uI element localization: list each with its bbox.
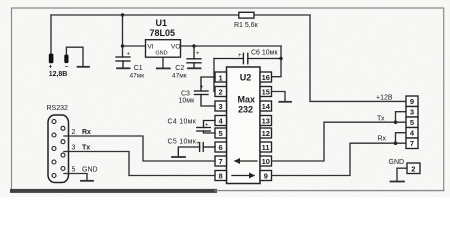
border bottom thin right segment <box>215 190 444 192</box>
svg-text:2: 2 <box>72 129 76 136</box>
wire VO riser to pin16 <box>272 46 281 77</box>
svg-text:232: 232 <box>238 105 253 115</box>
node VO/C2 junction <box>192 44 195 47</box>
svg-text:C1: C1 <box>134 65 143 72</box>
svg-text:9: 9 <box>410 97 414 106</box>
svg-text:12: 12 <box>262 129 270 138</box>
wire GND box to ground <box>397 168 407 181</box>
wire top rail left (to R1) <box>51 14 239 16</box>
DB9 holes left column <box>52 120 56 178</box>
svg-text:8: 8 <box>219 172 223 181</box>
svg-text:GND: GND <box>82 167 98 174</box>
connector RS232 DB9 body <box>48 115 69 183</box>
wire pin9 to Rx out <box>272 143 406 175</box>
svg-text:GND: GND <box>155 51 167 57</box>
battery - terminal <box>64 55 68 64</box>
DB9 holes right column <box>61 126 65 170</box>
capacitor C1 <box>116 57 130 68</box>
svg-text:Rх: Rх <box>378 136 387 143</box>
svg-text:14: 14 <box>262 102 271 111</box>
arrow pin10 to pin7 <box>234 158 257 164</box>
node Rx tee <box>394 141 398 145</box>
wire U1 GND pin <box>162 57 164 68</box>
svg-text:Max: Max <box>238 95 256 105</box>
svg-text:78L05: 78L05 <box>150 28 176 38</box>
node C6/VO junction <box>279 57 282 60</box>
pin 16 <box>260 72 272 82</box>
svg-text:2: 2 <box>219 88 223 97</box>
svg-text:Tx: Tx <box>82 145 90 152</box>
svg-text:9: 9 <box>264 172 268 181</box>
capacitor C3 (pins 1-3) <box>195 77 216 106</box>
svg-text:1: 1 <box>219 73 223 82</box>
pin 1 <box>215 72 227 82</box>
connector pin 2 GND box <box>407 163 420 174</box>
pin 5 <box>215 128 227 138</box>
ground for battery - <box>78 66 90 68</box>
svg-text:–: – <box>65 63 69 70</box>
svg-text:+: + <box>200 85 204 91</box>
svg-text:7: 7 <box>410 139 414 148</box>
svg-text:6: 6 <box>219 143 223 152</box>
svg-text:11: 11 <box>262 143 270 152</box>
svg-text:5: 5 <box>219 129 223 138</box>
svg-text:VO: VO <box>171 44 180 51</box>
pin 3 <box>215 101 227 111</box>
svg-text:10: 10 <box>262 157 270 166</box>
pin 2 <box>215 87 227 97</box>
svg-text:C3: C3 <box>181 91 190 98</box>
pin 4 <box>215 116 227 126</box>
svg-text:C4 10мк: C4 10мк <box>168 119 197 126</box>
ground below U1 <box>157 67 170 69</box>
svg-text:5: 5 <box>72 167 76 174</box>
svg-text:10мк: 10мк <box>179 98 196 105</box>
svg-text:C6 10мк: C6 10мк <box>251 50 278 57</box>
node Tx tee <box>394 120 398 124</box>
svg-text:GND: GND <box>389 159 405 166</box>
capacitor C2 <box>187 46 201 68</box>
connector X1 cells 9/3/5/4/7 <box>406 96 418 149</box>
node VI tee <box>121 44 124 47</box>
svg-text:47мк: 47мк <box>130 73 145 80</box>
pin 10 <box>260 156 272 166</box>
wire Rx branch to pin4 cell <box>396 133 407 144</box>
pin 6 <box>215 142 227 152</box>
pin 8 <box>215 171 227 181</box>
svg-text:+12В: +12В <box>376 95 393 102</box>
svg-text:3: 3 <box>219 102 223 111</box>
pin 11 <box>260 142 272 152</box>
wire pin10 to Tx out <box>272 122 406 161</box>
wire VO output rail <box>181 45 282 47</box>
border frame <box>12 8 444 191</box>
ground for DB9 <box>81 180 93 182</box>
wire Tx: DB9 pin3 to U2 pin8 <box>64 152 215 176</box>
svg-text:+: + <box>238 53 242 59</box>
regulator U1 78L05 body <box>146 40 181 58</box>
resistor R1 <box>239 12 254 18</box>
wire VI input <box>123 45 146 47</box>
svg-text:13: 13 <box>262 117 270 126</box>
pin 15 <box>260 87 272 97</box>
wire battery + riser to top rail <box>50 15 52 54</box>
svg-text:+: + <box>127 52 131 58</box>
svg-text:5: 5 <box>410 118 414 127</box>
capacitor C4 (pins 4-5) <box>197 121 215 134</box>
ground for pin15 <box>279 101 291 103</box>
svg-text:3: 3 <box>410 108 414 117</box>
wire GND: DB9 pin5 <box>64 174 87 181</box>
svg-text:3: 3 <box>72 145 76 152</box>
svg-text:VI: VI <box>147 44 153 51</box>
wire pin15 to ground <box>272 92 285 102</box>
pin 14 <box>260 101 272 111</box>
svg-text:U2: U2 <box>240 73 252 83</box>
svg-text:+: + <box>196 51 200 57</box>
pin 13 <box>260 116 272 126</box>
op chip U2 MAX232 body <box>227 67 261 184</box>
svg-text:C5 10мк: C5 10мк <box>168 138 197 145</box>
svg-text:Rx: Rx <box>82 129 91 136</box>
wire rail drop to VI / C1 <box>122 15 124 57</box>
svg-text:7: 7 <box>219 157 223 166</box>
svg-text:47мк: 47мк <box>172 73 187 80</box>
wire Tx branch to pin3 cell <box>396 112 407 123</box>
wire C6 to pin2 <box>214 59 215 92</box>
wire +12V riser down right side <box>310 15 406 101</box>
svg-text:C2: C2 <box>175 65 184 72</box>
border bottom thick dark segment <box>10 189 217 193</box>
svg-text:Тх: Тх <box>377 116 385 123</box>
svg-text:+: + <box>205 122 209 128</box>
svg-text:12,8В: 12,8В <box>49 71 68 78</box>
svg-text:2: 2 <box>411 164 415 173</box>
ground for pin2 box <box>391 181 405 183</box>
capacitor C6 <box>214 53 281 63</box>
svg-text:16: 16 <box>262 73 270 82</box>
svg-text:U1: U1 <box>156 18 168 28</box>
svg-text:+: + <box>196 141 200 147</box>
pin 7 <box>215 156 227 166</box>
capacitor C5 (pin 6 to gnd) <box>178 143 215 157</box>
ground below C2 <box>188 67 201 69</box>
svg-text:R1 5,6к: R1 5,6к <box>234 22 259 29</box>
ground for C5 <box>172 156 185 158</box>
pin 9 <box>260 171 272 181</box>
ground below C1 <box>117 67 130 69</box>
svg-text:15: 15 <box>262 88 270 97</box>
node rail/VI junction <box>121 13 124 16</box>
wire Rx: DB9 pin2 to U2 pin7 <box>64 136 215 161</box>
svg-text:+: + <box>49 64 53 71</box>
battery + terminal <box>49 54 54 64</box>
pin 12 <box>260 128 272 138</box>
svg-text:RS232: RS232 <box>47 105 69 112</box>
wire top rail right of R1 <box>254 14 310 16</box>
arrow pin8 to pin9 <box>232 173 255 179</box>
wire battery - up-over <box>66 47 83 67</box>
